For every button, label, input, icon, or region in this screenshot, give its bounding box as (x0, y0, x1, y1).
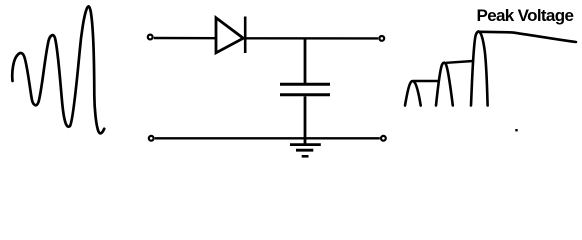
svg-text:Peak Voltage: Peak Voltage (477, 6, 574, 25)
